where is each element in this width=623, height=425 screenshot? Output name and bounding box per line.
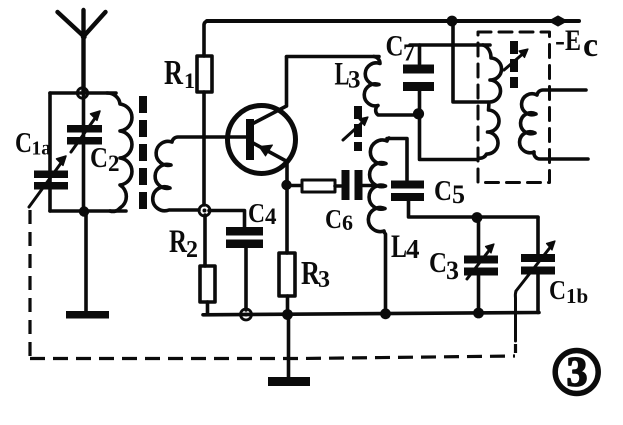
transformer T1 secondary coil (153, 137, 246, 211)
svg-text:1a: 1a (32, 139, 52, 160)
svg-text:C: C (325, 204, 342, 234)
svg-text:E: E (565, 24, 581, 57)
junction dot left tank bottom (79, 206, 89, 216)
svg-text:L: L (391, 229, 407, 265)
label C4 (248, 198, 277, 229)
wire bottom bus (203, 313, 539, 315)
svg-text:2: 2 (186, 237, 198, 263)
label -Ec (555, 24, 598, 64)
wire collector to L3 (287, 55, 380, 59)
svg-text:-: - (555, 24, 565, 57)
dashed gang line (30, 210, 516, 359)
capacitor C5 (387, 139, 538, 218)
wire left tank bottom (50, 209, 126, 213)
wire C7 top to output primary (410, 43, 490, 47)
svg-text:3: 3 (446, 256, 459, 285)
svg-text:2: 2 (108, 151, 120, 176)
label C3 (429, 247, 459, 285)
capacitor C1a (29, 156, 68, 207)
capacitor C4 (226, 227, 263, 310)
svg-text:C: C (386, 30, 404, 63)
inductor L4 (368, 138, 389, 311)
capacitor C3 (464, 218, 498, 312)
label C5 (434, 175, 465, 209)
svg-text:C: C (434, 175, 452, 207)
wire emitter node to box (287, 184, 303, 188)
figure number circled 3 (555, 350, 598, 396)
node antenna junction ring (77, 88, 87, 98)
transformer T1 primary coil (107, 93, 132, 211)
capacitor C1b (515, 218, 555, 342)
svg-text:C: C (90, 143, 108, 174)
output transformer dashed box (478, 32, 550, 183)
svg-text:4: 4 (265, 204, 277, 229)
resistor (unlabeled box) (302, 180, 335, 192)
node dot C5/C3 wire (472, 212, 483, 223)
arrow to -Ec (550, 17, 566, 26)
resistor R1 (197, 21, 212, 205)
svg-text:c: c (583, 27, 598, 64)
wire bus to output transformer tap (453, 21, 488, 102)
svg-text:4: 4 (406, 234, 420, 264)
svg-text:C: C (248, 198, 265, 228)
junction dot top bus (447, 16, 458, 27)
output transformer primary coil (479, 45, 502, 158)
label C2 (90, 143, 120, 176)
svg-text:3: 3 (348, 67, 361, 94)
junction dot bottom bus R3 (282, 309, 293, 320)
node dot L3/C7 junction (413, 108, 424, 119)
junction dot bottom bus C3 (473, 308, 484, 319)
resistor R2 (200, 215, 215, 314)
output transformer adjustable core (504, 41, 528, 88)
svg-text:C: C (429, 247, 447, 279)
node ring base divider (199, 205, 210, 216)
label R1 (164, 53, 195, 93)
label C7 (386, 30, 416, 67)
node emitter junction dot (281, 180, 291, 190)
wire left tank top (50, 91, 116, 95)
wire left tank left side (48, 93, 52, 211)
junction dot bottom bus L4 (380, 308, 391, 319)
wire antenna center vertical (82, 93, 86, 212)
capacitor C2 (67, 111, 102, 152)
label C1a (15, 127, 51, 160)
svg-text:R: R (164, 53, 184, 92)
capacitor C6 (335, 170, 373, 200)
capacitor C7 (403, 45, 434, 112)
transformer T1 core (139, 96, 147, 212)
wire to lower terminal bar (84, 212, 88, 311)
svg-text:C: C (15, 127, 32, 159)
terminal bar (left) (66, 311, 109, 319)
transistor Q1 (228, 57, 296, 184)
label R2 (169, 224, 198, 263)
ground (268, 315, 310, 386)
output transformer secondary coil (520, 90, 588, 159)
svg-text:5: 5 (452, 180, 465, 209)
label L3 (335, 57, 361, 94)
wire top supply bus (207, 19, 579, 23)
antenna (58, 10, 106, 93)
label R3 (301, 255, 330, 293)
wire node to C4 (209, 211, 245, 228)
label L4 (391, 229, 420, 265)
svg-text:1b: 1b (566, 284, 588, 308)
inductor L3 (364, 57, 416, 116)
svg-text:3: 3 (318, 267, 330, 293)
wire junction down and right to primary bottom (420, 114, 479, 160)
svg-text:C: C (549, 275, 566, 305)
svg-text:6: 6 (342, 210, 353, 235)
svg-text:3: 3 (567, 350, 588, 396)
adjustable core arrow (L3/L4) (343, 106, 368, 151)
label C1b (549, 275, 588, 308)
node ring C4 bottom (241, 309, 252, 320)
svg-text:1: 1 (184, 68, 195, 93)
resistor R3 (279, 190, 295, 313)
label C6 (325, 204, 353, 235)
